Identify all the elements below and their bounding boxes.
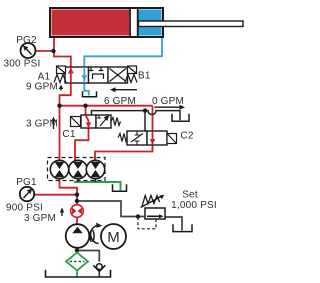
wires layer — [34, 36, 182, 277]
svg-text:B1: B1 — [138, 71, 151, 82]
svg-text:900 PSI: 900 PSI — [6, 203, 43, 214]
valve B1 right envelope crossed arrows — [110, 69, 127, 82]
wire: black stub to C2 top — [144, 111, 146, 131]
main reservoir — [46, 270, 111, 277]
wire: red branch into C1 — [85, 106, 87, 116]
wire: black line C1 top port to the right with hop over red, to tank — [92, 111, 181, 121]
wire: red B1 to junction node 1 and down to flow divider circle 1 — [60, 83, 71, 161]
valve C2 internal red flow — [150, 131, 156, 145]
gauge PG2 — [21, 43, 36, 58]
tank symbol under relief valve — [173, 224, 192, 231]
valve B1 right spring — [125, 75, 137, 83]
wire: blue B1 outlet jog down to tank — [84, 83, 89, 96]
valve B1 left spring — [54, 75, 66, 83]
valve C2 body — [127, 131, 167, 145]
valve B1 internal blue flow arrow (B to T) — [81, 67, 87, 83]
flow arrow 3 GPM lower (up) — [60, 208, 64, 217]
wire: dark line pump node to relief valve inlet — [77, 201, 145, 217]
flow divider motor circle 3 — [86, 160, 104, 178]
flow arrow 3 GPM upper (up) — [51, 117, 55, 130]
filter — [66, 253, 88, 277]
valve B1 left solenoid — [57, 66, 66, 74]
svg-text:3 GPM: 3 GPM — [26, 119, 58, 130]
flow arrow 9 GPM (up) — [59, 85, 63, 91]
check valve — [93, 264, 105, 272]
wire: pump bottom to filter node and over to check valve — [77, 248, 99, 277]
valve C2 left envelope blocked marks — [131, 131, 143, 145]
wire: cap-end red line from cylinder to valve B1 — [54, 36, 71, 67]
valve C2 spring — [118, 134, 128, 142]
cylinder body — [50, 8, 163, 37]
cylinder rod — [139, 21, 244, 27]
svg-text:C1: C1 — [62, 129, 75, 140]
wire: relief valve outlet to tank — [165, 217, 182, 231]
wire: red branch through C2 down and left to circle 3 — [95, 106, 153, 161]
flow divider motor circle 2 — [69, 160, 87, 178]
valve B1 right solenoid — [128, 66, 137, 74]
valve C1 body — [81, 115, 111, 128]
pump — [66, 224, 90, 248]
valve C1 solenoid — [71, 117, 81, 127]
coupling between pump and motor — [90, 230, 94, 242]
valve C1 spring — [111, 118, 121, 126]
svg-text:9 GPM: 9 GPM — [26, 82, 58, 93]
tank symbol right of 0 GPM line — [172, 114, 189, 121]
flow arrow 0 GPM (right) — [155, 105, 186, 110]
rotation arrow — [91, 223, 103, 244]
wire: PG1 gauge line — [34, 194, 77, 196]
electric motor M — [101, 224, 126, 249]
svg-text:6 GPM: 6 GPM — [104, 96, 136, 107]
tank symbol under B1 (blue drain) — [83, 91, 97, 96]
gauge PG1 — [20, 187, 34, 201]
tank symbol for green drain — [113, 184, 127, 191]
relief valve — [138, 195, 165, 229]
svg-text:M: M — [107, 229, 120, 246]
svg-text:PG1: PG1 — [16, 177, 37, 188]
wire: blue rod-end line from cylinder through B1 to tank — [84, 36, 162, 67]
flow divider dashed enclosure — [48, 158, 106, 181]
wire: red shutoff valve to pump inlet — [76, 217, 78, 225]
svg-text:C2: C2 — [180, 131, 193, 142]
flow divider motor circle 1 — [50, 160, 68, 178]
valve B1 internal red flow arrow (P to A) — [68, 67, 74, 83]
shutoff valve (red ball valve) — [71, 205, 84, 218]
valve B1 center envelope blocked ports — [89, 67, 104, 79]
wire: circle 2 and 3 bottom stubs — [78, 179, 96, 183]
svg-text:300 PSI: 300 PSI — [4, 59, 41, 70]
valve B1 body envelopes — [65, 67, 128, 83]
svg-text:3 GPM: 3 GPM — [24, 213, 56, 224]
valve C2 solenoid — [167, 134, 177, 144]
wire: red circle1 outlet down to PG1 node and shutoff valve — [60, 178, 78, 206]
svg-text:0 GPM: 0 GPM — [152, 96, 184, 107]
svg-text:1,000 PSI: 1,000 PSI — [171, 200, 217, 211]
wire: red C1 out to flow divider circle 2 — [75, 128, 89, 162]
junction node dots — [51, 49, 147, 253]
valve C1 right envelope marks — [97, 115, 109, 126]
svg-text:PG2: PG2 — [16, 35, 37, 46]
valve C1 internal red flow — [86, 115, 92, 128]
wire: PG2 gauge line — [36, 50, 54, 52]
wire: red main horizontal manifold — [60, 105, 153, 107]
flow arrow 6 GPM (left) — [110, 87, 137, 92]
wire: green drain from flow divider to tank — [74, 182, 121, 190]
svg-text:Set: Set — [182, 190, 198, 201]
